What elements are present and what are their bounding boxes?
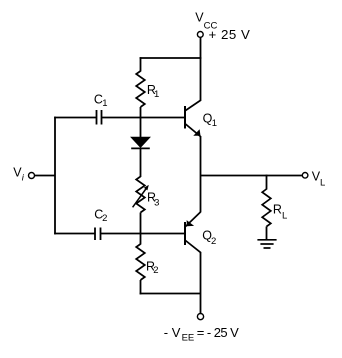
wire base row 1 left segment — [54, 117, 96, 119]
resistor R1 — [136, 71, 145, 107]
wire Q1 emitter to Q2 emitter through output node — [200, 136, 202, 212]
svg-text:L: L — [320, 177, 325, 188]
wire base row 2 right segment — [101, 233, 185, 235]
wire base row 1 right segment — [102, 117, 185, 119]
wire VCC junction to Q1 collector — [200, 58, 202, 101]
transistor Q2 — [185, 212, 201, 253]
svg-text:EE: EE — [182, 332, 195, 343]
wire top horizontal branch — [140, 57, 202, 59]
wire left bus vertical — [54, 117, 56, 235]
wire R3 through base row 2 to R2 — [140, 213, 142, 245]
diode — [131, 137, 150, 147]
wire output node to RL — [266, 175, 268, 190]
capacitor C1 — [96, 110, 98, 125]
resistor R2 — [136, 244, 145, 280]
ground — [257, 240, 276, 248]
svg-text:2: 2 — [211, 236, 216, 247]
svg-text:1: 1 — [212, 118, 217, 129]
wire output row — [201, 175, 303, 177]
terminal VEE — [197, 314, 203, 320]
wire R2 to bottom junction — [140, 280, 142, 294]
resistor RL — [262, 189, 271, 227]
svg-text:3: 3 — [154, 198, 159, 209]
terminal VCC — [197, 32, 203, 38]
transistor Q1 — [185, 100, 201, 137]
wire diode to R3 — [140, 148, 142, 177]
svg-text:2: 2 — [102, 213, 107, 224]
terminal VL — [302, 173, 308, 179]
wire RL to ground — [266, 227, 268, 240]
wire Q2 collector to VEE terminal — [200, 253, 202, 314]
svg-text:- V: - V — [164, 325, 181, 340]
svg-text:R: R — [273, 202, 282, 216]
svg-text:1: 1 — [102, 98, 107, 109]
terminal Vi — [29, 173, 35, 179]
svg-text:+ 25 V: + 25 V — [209, 27, 251, 42]
potentiometer R3 — [136, 177, 145, 213]
wire top branch down to R1 — [140, 57, 142, 71]
capacitor C2 — [94, 228, 96, 241]
svg-text:1: 1 — [154, 89, 159, 100]
wire R1 to base row and on to diode — [140, 107, 142, 138]
svg-text:L: L — [282, 211, 287, 222]
wire Vi to left bus — [35, 175, 56, 177]
wire VCC terminal to top junction — [200, 37, 202, 58]
wire base row 2 left segment — [54, 233, 95, 235]
svg-text:= - 25 V: = - 25 V — [197, 325, 239, 340]
wire bottom horizontal branch — [140, 293, 201, 295]
svg-text:2: 2 — [153, 265, 158, 276]
potentiometer R3 arrow — [133, 189, 147, 208]
